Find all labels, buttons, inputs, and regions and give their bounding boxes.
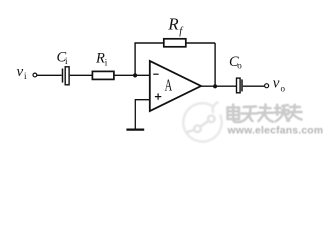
ground: [126, 129, 144, 131]
capacitor Ci: [63, 67, 70, 85]
wire op-amp noninverting input: [135, 100, 149, 129]
op-amp minus sign: [153, 73, 158, 75]
svg-text:o: o: [237, 61, 242, 71]
label Ri: [95, 51, 108, 68]
svg-text:R: R: [95, 51, 105, 67]
wire feedback right vertical: [214, 43, 216, 86]
output terminal vo: [265, 84, 269, 88]
svg-text:R: R: [167, 15, 179, 34]
resistor Rf: [164, 39, 186, 47]
op-amp A: [150, 61, 201, 111]
resistor Ri: [92, 71, 114, 79]
node junction output: [213, 84, 217, 88]
wire Ri to op-amp inverting input: [114, 74, 150, 76]
input terminal vi: [33, 73, 37, 77]
wire op-amp output: [201, 85, 237, 87]
wire feedback left vertical: [134, 43, 136, 75]
watermark logo circle: [183, 102, 221, 142]
capacitor Co: [237, 78, 243, 93]
watermark text 电子发烧友: [228, 105, 302, 123]
wire feedback top right: [186, 42, 215, 44]
wire feedback top left: [134, 42, 163, 44]
node junction input: [133, 73, 137, 77]
svg-text:v: v: [273, 76, 280, 92]
svg-text:A: A: [165, 75, 173, 94]
wire Co to output terminal: [243, 85, 265, 87]
svg-text:v: v: [17, 64, 24, 80]
svg-text:o: o: [281, 83, 286, 93]
svg-text:i: i: [105, 58, 108, 68]
label vi: [17, 64, 28, 81]
label Co: [229, 54, 242, 71]
svg-text:www.elecfans.com: www.elecfans.com: [227, 126, 324, 137]
label Rf: [167, 15, 184, 37]
op-amp plus sign: [155, 93, 161, 99]
svg-text:i: i: [24, 71, 27, 81]
wire Ci to Ri: [70, 74, 93, 76]
svg-text:i: i: [65, 56, 68, 66]
label vo: [273, 76, 286, 94]
svg-text:f: f: [179, 26, 184, 37]
label Ci: [57, 50, 69, 67]
wire input terminal to Ci: [37, 74, 62, 76]
